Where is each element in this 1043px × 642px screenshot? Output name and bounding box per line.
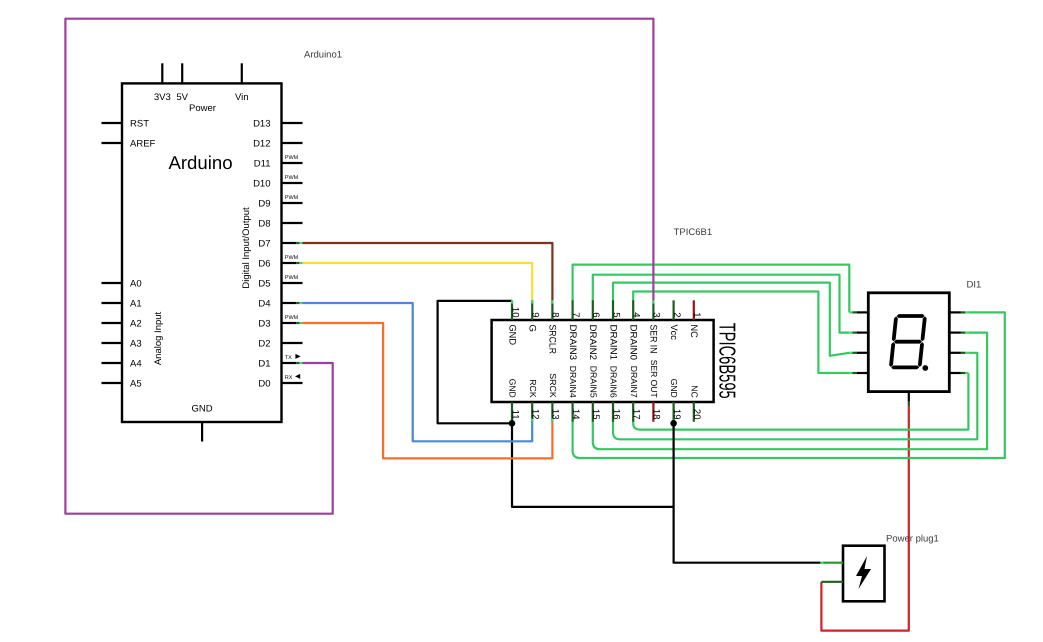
pin 3 tip	[652, 300, 654, 303]
svg-text:A1: A1	[130, 298, 142, 309]
component DI1 body	[868, 293, 949, 392]
svg-text:D13: D13	[253, 118, 270, 129]
pin DI1 left 2 tip bright	[849, 332, 852, 334]
pin RST stub	[102, 122, 123, 124]
svg-text:16: 16	[610, 409, 621, 420]
pin D6 stub	[282, 262, 297, 264]
pin DI1 right 4 stub	[949, 372, 961, 374]
pin D3 stub	[282, 322, 297, 324]
pin D10 stub	[282, 182, 303, 184]
pin DI1 left 1 stub	[857, 311, 868, 313]
svg-text:DI1: DI1	[967, 279, 982, 290]
svg-text:9: 9	[530, 312, 541, 317]
pin DI1 left 2 tip dark	[853, 332, 858, 334]
pin D12 stub	[282, 142, 303, 144]
pin 20 NC stub	[693, 402, 695, 422]
pin 10 GND stub	[511, 300, 513, 320]
svg-text:7: 7	[570, 312, 581, 317]
pin 17 DRAIN7 stub	[632, 402, 634, 422]
pin 6 DRAIN2 stub	[592, 300, 594, 320]
wire green TPIC pin15 DRAIN5 -> DI1 right pin2	[593, 333, 987, 450]
svg-text:Arduino: Arduino	[168, 152, 232, 173]
pin DI1 right 2 tip dark	[961, 332, 966, 334]
svg-text:DRAIN3: DRAIN3	[567, 325, 578, 361]
svg-text:D5: D5	[258, 278, 270, 289]
pin A2 stub	[102, 322, 123, 324]
svg-text:DRAIN7: DRAIN7	[629, 366, 639, 398]
svg-text:D9: D9	[258, 198, 270, 209]
svg-text:D10: D10	[253, 178, 270, 189]
wire red DI1 common -> Power plug1 pin2	[821, 406, 908, 631]
pin 5 DRAIN1 stub	[612, 300, 614, 320]
svg-text:D3: D3	[258, 318, 270, 329]
pin DI1 right 1 stub	[949, 311, 961, 313]
svg-text:PWM: PWM	[285, 175, 299, 181]
svg-text:D1: D1	[258, 358, 270, 369]
svg-text:SER IN: SER IN	[648, 325, 659, 354]
svg-text:GND: GND	[192, 404, 213, 415]
svg-text:6: 6	[590, 312, 601, 317]
svg-text:PWM: PWM	[285, 275, 299, 281]
svg-text:TX: TX	[285, 355, 292, 361]
pin 9 tip	[531, 300, 533, 303]
pin 8 tip	[551, 300, 553, 303]
svg-text:A0: A0	[130, 278, 142, 289]
svg-text:SRCLR: SRCLR	[547, 325, 558, 355]
svg-text:RX: RX	[285, 375, 293, 381]
pin 4 DRAIN0 stub	[632, 300, 634, 320]
pin DI1 right 1 tip bright	[965, 311, 968, 313]
lightning bolt icon	[856, 556, 871, 589]
svg-text:Vcc: Vcc	[668, 325, 679, 341]
wire orange Arduino D3 -> TPIC pin13 SRCK	[303, 323, 553, 458]
svg-text:RST: RST	[130, 118, 149, 129]
svg-text:18: 18	[651, 409, 662, 420]
svg-text:13: 13	[550, 409, 561, 420]
svg-text:G: G	[527, 325, 538, 332]
svg-text:DRAIN5: DRAIN5	[588, 366, 598, 398]
pin A5 stub	[102, 382, 123, 384]
svg-text:A5: A5	[130, 378, 142, 389]
svg-text:DRAIN0: DRAIN0	[628, 325, 639, 361]
svg-text:19: 19	[671, 409, 682, 420]
svg-text:Analog Input: Analog Input	[153, 311, 164, 365]
svg-text:Digital Input/Output: Digital Input/Output	[241, 207, 252, 289]
pin D1 tip bright	[299, 362, 302, 364]
pin DI1 left 2 stub	[857, 332, 868, 334]
pin DI1 right 3 stub	[949, 352, 961, 354]
pin DI1 right 2 stub	[949, 332, 961, 334]
pin GND stub (Arduino ground)	[201, 422, 203, 442]
svg-text:DRAIN2: DRAIN2	[587, 325, 598, 361]
svg-text:RCK: RCK	[528, 379, 538, 398]
pin Vin stub	[241, 63, 243, 83]
pin DI1 right 4 tip bright	[965, 372, 968, 374]
pin 12 tip	[531, 418, 533, 421]
pin DI1 left 4 stub	[857, 372, 868, 374]
pin D1 tip dark	[296, 362, 299, 364]
svg-text:PWM: PWM	[285, 315, 299, 321]
junction GND node at pin 11	[509, 420, 516, 427]
pin D2 stub	[282, 342, 303, 344]
pin D7 tip bright	[299, 242, 302, 244]
pin D13 stub	[282, 122, 303, 124]
pin D6 tip dark	[296, 262, 299, 264]
svg-text:NC: NC	[688, 325, 699, 338]
pin D4 tip bright	[299, 302, 302, 304]
pin DI1 left 4 tip dark	[853, 372, 858, 374]
svg-text:D0: D0	[258, 378, 270, 389]
wire purple Arduino D1 TX -> TPIC pin3 SER IN	[65, 19, 653, 514]
svg-text:4: 4	[631, 312, 642, 317]
svg-text:PWM: PWM	[285, 195, 299, 201]
pin 5V stub	[181, 63, 183, 83]
svg-text:A4: A4	[130, 358, 142, 369]
pin 14 DRAIN4 stub	[571, 402, 573, 422]
svg-text:2: 2	[671, 312, 682, 317]
pin 1 NC stub	[693, 300, 695, 320]
svg-text:3: 3	[651, 312, 662, 317]
wire yellow Arduino D6 -> TPIC pin9 G	[303, 263, 533, 301]
svg-text:GND: GND	[669, 379, 679, 398]
pin D1 TX arrow	[295, 354, 300, 359]
svg-text:Power: Power	[189, 103, 216, 114]
pin D3 tip dark	[296, 322, 299, 324]
pin D11 stub	[282, 162, 303, 164]
pin 19 GND stub	[672, 402, 674, 422]
svg-text:11: 11	[509, 410, 520, 420]
pin D0 RX arrow	[295, 374, 300, 379]
pin A4 stub	[102, 362, 123, 364]
svg-text:12: 12	[530, 409, 541, 420]
pin D5 stub	[282, 282, 303, 284]
svg-text:A2: A2	[130, 318, 142, 329]
svg-text:SER OUT: SER OUT	[649, 360, 659, 399]
pin 3V3 stub	[161, 63, 163, 83]
wire black TPIC pin10 GND loop to pin11 GND	[438, 301, 512, 423]
svg-text:TPIC6B595: TPIC6B595	[715, 323, 741, 399]
svg-text:NC: NC	[689, 385, 699, 398]
pin 15 DRAIN5 stub	[592, 402, 594, 422]
pin 16 DRAIN6 stub	[612, 402, 614, 422]
svg-text:Power plug1: Power plug1	[886, 533, 939, 544]
wire brown Arduino D7 -> TPIC pin8 SRCLR	[303, 243, 553, 301]
svg-text:8: 8	[550, 312, 561, 317]
pin DI1 left 3 tip dark	[853, 352, 858, 354]
component Arduino1 body	[122, 83, 282, 422]
pin 9 G stub	[531, 300, 533, 320]
svg-text:DRAIN1: DRAIN1	[607, 325, 618, 361]
pin Power plug1 pin1 (+) stub	[820, 562, 843, 564]
wire green TPIC pin4 DRAIN0 -> DI1 left pin4	[633, 292, 849, 374]
decimal point	[922, 365, 928, 371]
svg-text:GND: GND	[506, 325, 517, 346]
junction GND node at pin 19	[670, 420, 677, 427]
svg-text:D8: D8	[258, 218, 270, 229]
svg-text:D11: D11	[254, 158, 271, 169]
pin D7 stub	[282, 242, 297, 244]
pin D7 tip dark	[296, 242, 299, 244]
svg-text:DRAIN4: DRAIN4	[568, 366, 578, 398]
svg-text:1: 1	[691, 312, 702, 317]
wire green TPIC pin14 DRAIN4 -> DI1 right pin1	[573, 312, 1005, 458]
svg-text:17: 17	[631, 409, 642, 420]
svg-text:14: 14	[570, 409, 581, 420]
pin D4 stub	[282, 302, 297, 304]
svg-text:D4: D4	[258, 298, 270, 309]
svg-text:DRAIN6: DRAIN6	[609, 366, 619, 398]
pin 3 SER IN stub	[652, 300, 654, 320]
wire black TPIC pin11 GND -> pin19 GND vertical	[512, 423, 674, 507]
pin DI1 left 3 stub	[857, 352, 868, 354]
svg-text:Arduino1: Arduino1	[304, 49, 342, 60]
svg-text:Vin: Vin	[235, 92, 249, 103]
pin DI1 left 1 tip bright	[849, 311, 852, 313]
wire green TPIC pin17 DRAIN7 -> DI1 right pin4	[633, 373, 968, 430]
pin AREF stub	[102, 142, 123, 144]
pin Power plug1 pin1 tip	[820, 562, 823, 564]
pin 13 tip	[551, 418, 553, 421]
svg-text:D2: D2	[258, 338, 270, 349]
wire blue Arduino D4 -> TPIC pin12 RCK	[303, 303, 533, 441]
svg-text:AREF: AREF	[130, 138, 156, 149]
svg-text:D12: D12	[253, 138, 270, 149]
pin DI1 right 1 tip dark	[961, 311, 966, 313]
svg-text:GND: GND	[508, 379, 518, 398]
pin D3 tip bright	[299, 322, 302, 324]
pin A3 stub	[102, 342, 123, 344]
pin 18 SER OUT stub	[652, 402, 654, 422]
wire green TPIC pin5 DRAIN1 -> DI1 left pin3	[613, 283, 849, 356]
pin 2 Vcc stub	[672, 300, 674, 320]
svg-text:15: 15	[590, 409, 601, 420]
component Power plug1 body	[843, 546, 885, 602]
svg-text:SRCK: SRCK	[548, 373, 558, 398]
svg-text:TPIC6B1: TPIC6B1	[674, 227, 713, 238]
pin A0 stub	[102, 282, 123, 284]
wire green TPIC pin7 DRAIN3 -> DI1 left pin1	[573, 265, 850, 313]
pin D6 tip bright	[299, 262, 302, 264]
svg-text:5: 5	[610, 312, 621, 317]
pin DI1 left 3 tip bright	[849, 352, 852, 354]
seven-segment digit 8	[889, 314, 927, 369]
pin D4 tip dark	[296, 302, 299, 304]
wire green TPIC pin16 DRAIN6 -> DI1 right pin3	[613, 353, 977, 440]
pin DI1 right 3 tip dark	[961, 352, 966, 354]
svg-text:3V3: 3V3	[154, 92, 171, 103]
pin DI1 right 3 tip bright	[965, 352, 968, 354]
pin DI1 common tip	[908, 401, 910, 406]
component TPIC6B1 body	[492, 320, 714, 402]
svg-text:20: 20	[691, 409, 702, 420]
pin A1 stub	[102, 302, 123, 304]
pin D1 stub	[282, 362, 297, 364]
svg-text:D6: D6	[258, 258, 270, 269]
pin DI1 common stub	[908, 392, 910, 402]
svg-text:10: 10	[509, 307, 520, 318]
pin 8 SRCLR stub	[551, 300, 553, 320]
pin DI1 right 2 tip bright	[965, 332, 968, 334]
wire black TPIC pin19 GND -> Power plug1 pin1	[674, 423, 821, 562]
pin 10 tip	[511, 300, 513, 303]
pin DI1 left 4 tip bright	[849, 372, 852, 374]
pin D0 stub	[282, 382, 303, 384]
pin DI1 left 1 tip dark	[853, 311, 858, 313]
svg-text:A3: A3	[130, 338, 142, 349]
pin Power plug1 pin2 (-) stub	[821, 581, 843, 583]
pin 11 GND stub	[511, 402, 513, 422]
pin D9 stub	[282, 202, 303, 204]
pin 12 RCK stub	[531, 402, 533, 422]
svg-text:PWM: PWM	[285, 255, 299, 261]
pin DI1 right 4 tip dark	[961, 372, 966, 374]
pin D8 stub	[282, 222, 303, 224]
wire green TPIC pin6 DRAIN2 -> DI1 left pin2	[593, 275, 850, 333]
svg-text:5V: 5V	[176, 92, 188, 103]
svg-text:D7: D7	[258, 238, 270, 249]
pin 7 DRAIN3 stub	[571, 300, 573, 320]
pin 13 SRCK stub	[551, 402, 553, 422]
svg-text:PWM: PWM	[285, 155, 299, 161]
